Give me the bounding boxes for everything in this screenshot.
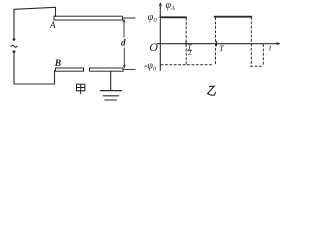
- ground bar 2: [103, 95, 118, 97]
- wire left upper: [13, 9, 15, 37]
- tick T: [216, 42, 218, 46]
- dashed rise at right end: [262, 45, 264, 67]
- svg-text:d: d: [121, 38, 126, 48]
- ground bar 3: [105, 99, 117, 101]
- wire left lower: [13, 53, 15, 84]
- AC source tilde symbol: [11, 45, 17, 47]
- plate A: [54, 16, 123, 20]
- svg-text:T: T: [219, 44, 224, 53]
- graph x-axis: [157, 43, 279, 45]
- svg-text:φA: φA: [166, 0, 176, 12]
- dashed rise at T: [215, 18, 217, 65]
- wire plate B to ground: [110, 71, 112, 90]
- svg-text:φ0: φ0: [148, 12, 158, 24]
- curve high segment 1: [160, 16, 186, 18]
- curve high segment 2: [215, 16, 252, 18]
- svg-text:-φ0: -φ0: [144, 60, 157, 72]
- svg-text:B: B: [54, 59, 61, 69]
- tick T/2: [185, 42, 187, 46]
- dimension d arrow lower: [123, 48, 126, 69]
- plate A extension line: [123, 17, 136, 19]
- label jia (caption 甲): [77, 84, 85, 94]
- wire up to plate B: [54, 71, 56, 85]
- plate B right segment: [90, 68, 124, 71]
- plate B left segment: [56, 68, 84, 71]
- label yi (caption 乙): [208, 86, 216, 95]
- wire top: [14, 7, 56, 9]
- svg-text:A: A: [49, 20, 56, 30]
- svg-text:2: 2: [188, 49, 192, 57]
- svg-text:O: O: [149, 40, 158, 54]
- plate B extension line: [123, 69, 135, 71]
- curve low dashed segment 2: [251, 65, 264, 67]
- dashed drop at 3T/2: [250, 17, 252, 66]
- graph y-axis: [157, 2, 281, 70]
- wire bottom: [14, 83, 55, 85]
- dimension d arrow upper: [122, 19, 125, 37]
- curve low dashed segment 1: [161, 64, 214, 66]
- AC source ~ terminal dot upper: [13, 38, 16, 41]
- ground bar 1: [101, 90, 122, 92]
- AC source terminal dot lower: [13, 50, 16, 53]
- dashed drop at T/2: [185, 18, 187, 65]
- wire down to plate A: [55, 7, 57, 16]
